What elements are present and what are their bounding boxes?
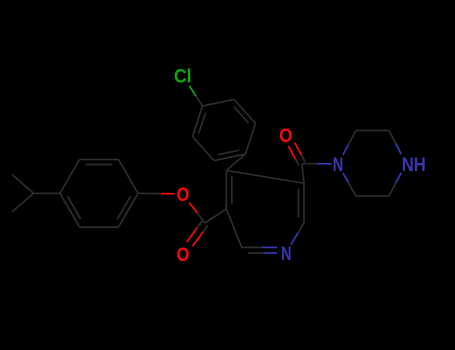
isopropyl group [12, 175, 60, 213]
piperazine ring [343, 131, 401, 197]
svg-text:O: O [177, 184, 190, 206]
bond aryl O (left ring to ester O) [138, 192, 161, 194]
ester C=O double bond [197, 221, 202, 228]
bond esterC-pyridine C3 [205, 209, 226, 223]
svg-text:O: O [177, 244, 190, 266]
chlorophenyl ring [193, 99, 256, 160]
bond O-C(=O) [189, 203, 197, 213]
svg-text:O: O [279, 125, 292, 147]
pyridine ring [226, 171, 304, 254]
bond chlorophenyl-pyridine [226, 154, 245, 171]
amide C=O double bond [302, 155, 306, 161]
svg-text:Cl: Cl [174, 66, 192, 88]
bond amideC-Npip [302, 163, 317, 165]
svg-text:N: N [281, 243, 292, 265]
isopropylphenyl ring [60, 160, 138, 228]
svg-text:NH: NH [402, 154, 426, 176]
bond C5-amideC [302, 164, 304, 184]
svg-text:N: N [333, 154, 344, 176]
Cl-C bond [189, 86, 196, 96]
